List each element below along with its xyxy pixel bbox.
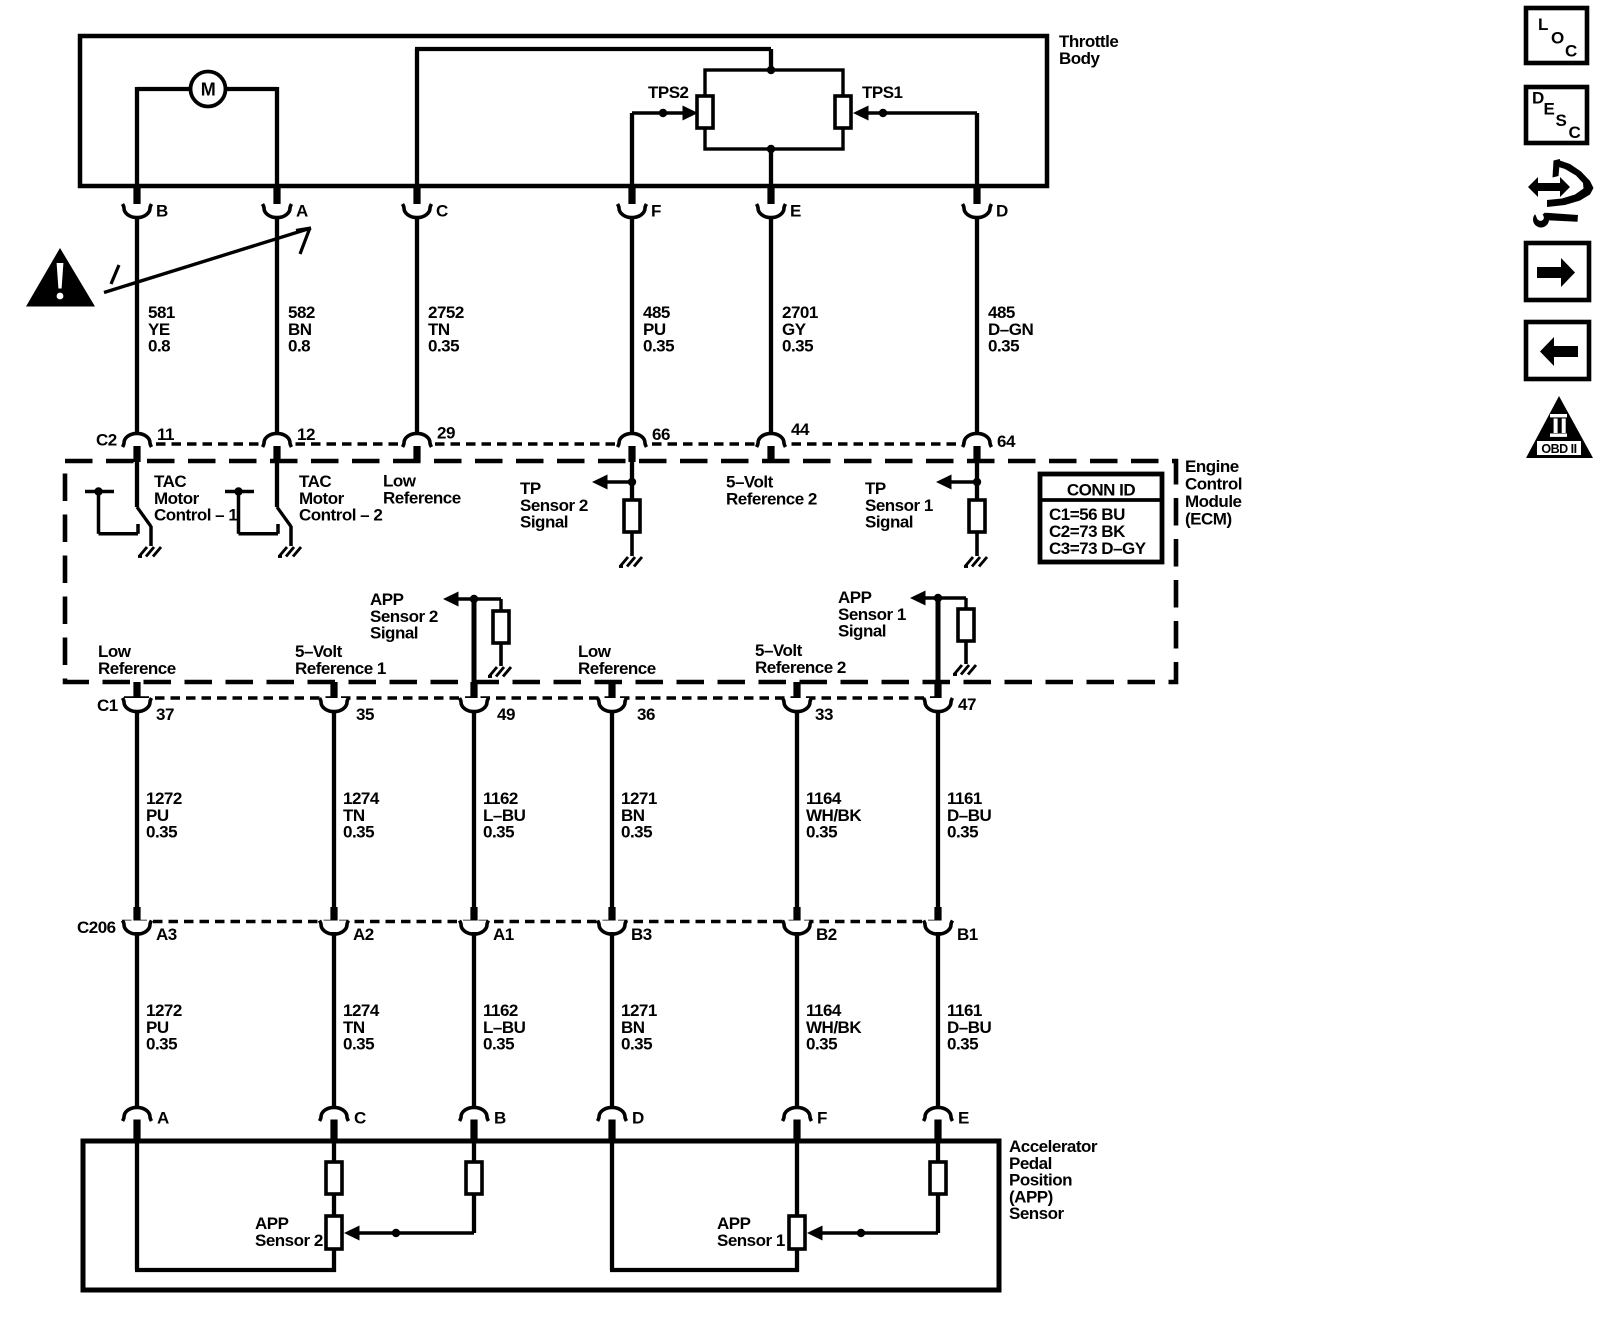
C1 pin 33 [783, 682, 833, 724]
C2 pin 44 [757, 420, 810, 462]
svg-text:29: 29 [437, 424, 455, 443]
svg-text:O: O [1551, 29, 1564, 48]
APP Sensor 1 Signal label [838, 588, 906, 640]
APP sensor pin B [460, 1107, 507, 1142]
throttle body label [1059, 32, 1118, 68]
C2 pin 12 [263, 425, 315, 462]
svg-text:35: 35 [356, 705, 374, 724]
svg-text:A1: A1 [493, 925, 514, 944]
svg-text:B3: B3 [631, 925, 652, 944]
C206 pin B1 [924, 907, 978, 944]
connector C2 dotted line [125, 442, 990, 446]
APP sensor pin E [924, 1107, 970, 1142]
svg-text:49: 49 [497, 705, 515, 724]
C2 pin 11 [123, 425, 175, 462]
C206 pin A3 [123, 907, 177, 944]
wire 1162 (C206 to APP sensor) [474, 932, 526, 1108]
wire: motor to pin B [137, 87, 192, 186]
TPS network frame [705, 70, 843, 149]
TAC motor control 2 label [299, 472, 382, 524]
forward arrow icon [1526, 243, 1589, 300]
motor M (throttle actuator) [191, 72, 226, 107]
ground (APP sensor 1 signal) [953, 665, 976, 675]
svg-text:CONN ID: CONN ID [1067, 481, 1136, 500]
TPS2 sensor element [648, 83, 713, 128]
APP Sensor 1 label [717, 1214, 785, 1250]
APP sensor box [83, 1141, 999, 1290]
svg-text:A3: A3 [156, 925, 177, 944]
APP sensor pin F [783, 1107, 828, 1142]
ground (APP sensor 2 signal) [488, 667, 511, 677]
back arrow icon [1526, 322, 1589, 379]
APP sensor 2 low side wire to pin A [135, 1143, 336, 1272]
svg-text:E: E [958, 1108, 969, 1127]
svg-text:C1: C1 [97, 696, 118, 715]
TP Sensor 1 Signal label [865, 479, 933, 531]
svg-text:37: 37 [156, 705, 174, 724]
DESC icon [1526, 87, 1587, 143]
5-Volt Reference 2 label (pin 33) [755, 641, 846, 677]
connector pin C (throttle body) [403, 186, 449, 434]
svg-text:11: 11 [157, 425, 174, 444]
svg-text:C: C [1569, 123, 1581, 142]
connector C2 label [96, 431, 117, 450]
svg-text:E: E [1544, 100, 1555, 119]
svg-text:C: C [436, 201, 448, 220]
APP sensor 2 element resistor [326, 1143, 342, 1216]
TP Sensor 2 Signal label [520, 479, 588, 531]
connector pin A (throttle body) [263, 186, 309, 434]
C1 pin 37 [123, 682, 174, 724]
svg-text:TPS1: TPS1 [862, 83, 903, 102]
svg-text:33: 33 [815, 705, 833, 724]
svg-text:F: F [651, 201, 661, 220]
connector C206 dotted line [122, 920, 941, 924]
TPS1 sensor element [835, 83, 903, 128]
svg-text:47: 47 [958, 695, 976, 714]
APP Sensor 2 label [255, 1214, 323, 1250]
node: TPS bottom junction [767, 145, 775, 153]
wire 1164 (C1 pin to C206) [797, 710, 862, 907]
Low Reference label (pin 37) [98, 642, 176, 678]
C206 pin B2 [783, 907, 837, 944]
svg-text:66: 66 [652, 425, 670, 444]
svg-text:D: D [996, 201, 1008, 220]
APP sensor 1 wiper box [789, 1216, 805, 1249]
svg-text:A: A [296, 201, 308, 220]
svg-text:M: M [201, 79, 216, 99]
OBD II icon [1526, 396, 1593, 458]
svg-text:A: A [157, 1108, 169, 1127]
ground (TAC motor control 2) [278, 547, 301, 557]
APP sensor pin C [320, 1107, 367, 1142]
Low Reference label (pin 36) [578, 642, 656, 678]
APP sensor label [1009, 1137, 1098, 1223]
svg-text:S: S [1556, 111, 1567, 130]
C206 pin B3 [598, 907, 652, 944]
C206 pin A2 [320, 907, 374, 944]
svg-text:A2: A2 [353, 925, 374, 944]
TAC motor control driver 1 (switch) [85, 462, 151, 546]
connector C1 label [97, 696, 118, 715]
caution callout line to wire A [104, 228, 311, 293]
Low Reference label (pin 29) [383, 472, 461, 508]
wire label 582 A-column [288, 303, 315, 355]
svg-text:12: 12 [297, 425, 315, 444]
ground (TP sensor 1 signal) [964, 557, 987, 567]
svg-text:D: D [632, 1108, 644, 1127]
wire 1161 (C1 pin to C206) [938, 710, 992, 907]
wire 1272 (C1 pin to C206) [137, 710, 182, 907]
connector pin B (throttle body) [123, 186, 169, 434]
C1 pin 49 [460, 682, 515, 724]
svg-text:36: 36 [637, 705, 655, 724]
C1 pin 47 [924, 682, 976, 714]
ground (TAC motor control 1) [138, 547, 161, 557]
wrench / exchange icon [1528, 159, 1594, 228]
TP Sensor 2 signal tap [592, 462, 640, 556]
svg-text:E: E [790, 201, 801, 220]
C2 pin 66 [618, 425, 670, 462]
wire: TPS bottom to pin E [769, 149, 773, 186]
wire label 485 F-column [643, 303, 674, 355]
C2 pin 29 [403, 424, 455, 462]
svg-text:C: C [1565, 42, 1577, 61]
svg-text:C2: C2 [96, 431, 117, 450]
svg-text:C206: C206 [77, 918, 116, 937]
wire 1274 (C206 to APP sensor) [334, 932, 380, 1108]
ground (TP sensor 2 signal) [619, 557, 642, 567]
wire 1161 (C206 to APP sensor) [938, 932, 992, 1108]
TPS1 wiper arrow from pin D [853, 106, 977, 187]
APP Sensor 2 Signal label [370, 590, 438, 642]
svg-text:TPS2: TPS2 [648, 83, 689, 102]
throttle body box [80, 36, 1047, 186]
APP Sensor 1 signal tap [910, 591, 974, 685]
svg-text:B2: B2 [816, 925, 837, 944]
APP sensor 2 wiper arrow from pin B [344, 1143, 482, 1241]
C2 pin 64 [963, 432, 1016, 462]
wire 1164 (C206 to APP sensor) [797, 932, 862, 1108]
svg-text:C: C [354, 1108, 366, 1127]
TPS2 wiper arrow from pin F [632, 106, 698, 187]
connector pin D (throttle body) [963, 186, 1009, 434]
APP sensor 1 wiper column from pin F [795, 1143, 799, 1216]
TAC motor control driver 2 (switch) [225, 462, 291, 546]
wire 1274 (C1 pin to C206) [334, 710, 380, 907]
wire: pin C to TPS network (5-volt feed) [415, 49, 771, 186]
svg-text:D: D [1532, 89, 1544, 108]
connector pin E (throttle body) [757, 186, 802, 434]
svg-text:L: L [1538, 15, 1548, 34]
C206 pin A1 [460, 907, 514, 944]
ECM label [1185, 457, 1242, 528]
svg-text:B: B [494, 1108, 506, 1127]
wire label 581 B-column [148, 303, 175, 355]
APP sensor 2 wiper box [326, 1216, 342, 1249]
APP sensor 1 wiper arrow from pin E [807, 1143, 946, 1241]
APP sensor pin D [598, 1107, 645, 1142]
connector pin F (throttle body) [618, 186, 662, 434]
svg-text:B1: B1 [957, 925, 978, 944]
wire 1271 (C206 to APP sensor) [612, 932, 657, 1108]
5-Volt Reference 2 label (pin 44) [726, 473, 817, 509]
node: TPS top junction [767, 66, 775, 74]
wire 1272 (C206 to APP sensor) [137, 932, 182, 1108]
connector C206 label [77, 918, 116, 937]
ECM dashed border [65, 461, 1176, 682]
wire: motor to pin A [224, 87, 277, 186]
APP Sensor 2 signal tap [443, 592, 509, 685]
TP Sensor 1 signal tap [936, 462, 985, 556]
wire label 485 D-column [988, 303, 1033, 355]
connector C1 dotted line [124, 696, 940, 700]
wire 1162 (C1 pin to C206) [474, 710, 526, 907]
svg-text:44: 44 [791, 420, 810, 439]
APP sensor pin A [123, 1107, 170, 1142]
svg-text:OBD II: OBD II [1541, 442, 1576, 456]
svg-text:64: 64 [997, 432, 1016, 451]
TAC motor control 1 label [154, 472, 237, 524]
caution triangle [26, 248, 95, 307]
wire 1271 (C1 pin to C206) [612, 710, 657, 907]
C1 pin 36 [598, 682, 655, 724]
svg-text:F: F [817, 1108, 827, 1127]
5-Volt Reference 1 label (pin 35) [295, 642, 386, 678]
CONN ID table [1040, 474, 1162, 562]
LOC icon [1526, 8, 1587, 63]
C1 pin 35 [320, 682, 374, 724]
svg-text:B: B [156, 201, 168, 220]
wire label 2701 E-column [782, 303, 818, 355]
wire label 2752 C-column [428, 303, 464, 355]
APP sensor 1 low side wire to pin D [610, 1143, 799, 1272]
